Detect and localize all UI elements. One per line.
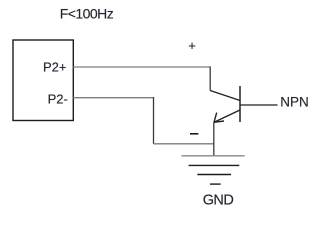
- ground: [182, 156, 245, 184]
- svg-text:NPN: NPN: [280, 95, 309, 110]
- wire P2+ vertical drop: [209, 66, 211, 90]
- svg-text:P2-: P2-: [48, 91, 68, 106]
- svg-text:F<100Hz: F<100Hz: [60, 6, 114, 22]
- transistor Q1 base lead: [240, 104, 278, 106]
- wire collector diagonal: [210, 91, 240, 101]
- wire P2- bottom horizontal to emitter: [154, 143, 214, 145]
- svg-text:+: +: [188, 38, 196, 53]
- wire P2- vertical drop: [153, 97, 155, 144]
- wire emitter vertical to ground: [213, 122, 215, 156]
- wire P2- horizontal: [73, 97, 153, 99]
- svg-text:GND: GND: [203, 193, 234, 209]
- node - (negative marker): [190, 133, 198, 135]
- transistor Q1 emitter with arrow: [214, 110, 240, 122]
- connector P2 box: [13, 40, 73, 121]
- wire P2+ horizontal: [73, 66, 210, 68]
- transistor Q1 base bar: [239, 86, 241, 122]
- svg-text:P2+: P2+: [43, 60, 67, 75]
